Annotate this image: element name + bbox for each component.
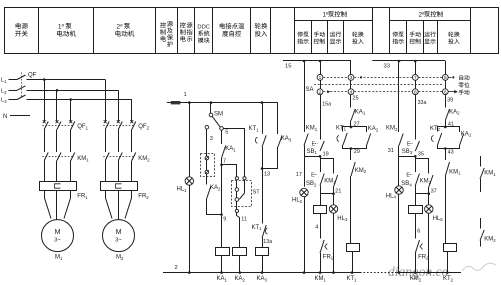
svg-text:21: 21 [335, 188, 341, 194]
svg-text:KA3: KA3 [281, 136, 292, 142]
svg-text:SM: SM [214, 112, 223, 118]
svg-text:35: 35 [418, 151, 424, 157]
svg-text:L3: L3 [1, 98, 7, 104]
svg-text:6: 6 [417, 228, 420, 234]
svg-text:KM2: KM2 [484, 237, 496, 243]
svg-text:7: 7 [223, 158, 226, 164]
svg-text:E: E [406, 173, 410, 179]
svg-text:3~: 3~ [54, 238, 61, 244]
svg-text:43: 43 [448, 149, 454, 155]
svg-text:7: 7 [414, 75, 417, 81]
svg-text:KM1: KM1 [484, 171, 496, 177]
svg-text:39: 39 [447, 98, 453, 104]
svg-text:KM2: KM2 [355, 168, 367, 174]
svg-text:15: 15 [285, 64, 291, 70]
svg-text:6: 6 [444, 89, 447, 95]
svg-text:3: 3 [210, 136, 213, 142]
svg-text:KT1: KT1 [249, 126, 260, 132]
svg-text:KT1: KT1 [252, 225, 263, 231]
svg-text:SB3: SB3 [402, 149, 413, 155]
svg-text:L2: L2 [1, 89, 7, 95]
svg-text:E: E [312, 142, 316, 148]
svg-text:SB1: SB1 [307, 149, 318, 155]
svg-text:KM2: KM2 [420, 179, 432, 185]
svg-text:SA: SA [306, 87, 314, 93]
svg-text:E: E [311, 173, 315, 179]
svg-text:DDC: DDC [197, 25, 210, 31]
svg-text:KM1: KM1 [449, 169, 461, 175]
svg-text:5: 5 [225, 130, 228, 136]
svg-text:8: 8 [414, 89, 417, 95]
svg-text:KA2: KA2 [235, 276, 246, 282]
svg-text:M2: M2 [116, 255, 124, 261]
svg-text:ST: ST [253, 190, 261, 196]
svg-text:M1: M1 [55, 255, 63, 261]
svg-text:KA1: KA1 [217, 276, 228, 282]
svg-text:KA2: KA2 [449, 109, 460, 115]
svg-text:FR2: FR2 [418, 254, 429, 260]
svg-text:HL2: HL2 [292, 198, 303, 204]
svg-text:HL1: HL1 [177, 187, 188, 193]
svg-text:M: M [55, 229, 61, 236]
svg-text:3: 3 [350, 75, 353, 81]
svg-text:9: 9 [223, 216, 226, 222]
svg-text:4: 4 [315, 225, 318, 231]
svg-text:31: 31 [388, 148, 394, 154]
svg-text:N: N [3, 114, 7, 120]
svg-text:KT1: KT1 [336, 125, 347, 131]
svg-text:13: 13 [264, 171, 270, 177]
svg-text:17: 17 [296, 172, 302, 178]
svg-text:L1: L1 [1, 78, 7, 84]
svg-text:KM2: KM2 [386, 126, 398, 132]
svg-text:FR1: FR1 [323, 254, 334, 260]
svg-text:M: M [116, 229, 122, 236]
svg-text:KA1: KA1 [225, 146, 236, 152]
svg-text:KM2: KM2 [138, 156, 150, 162]
svg-text:QF1: QF1 [77, 124, 88, 130]
svg-text:KM1: KM1 [77, 156, 89, 162]
svg-text:SB2: SB2 [306, 181, 317, 187]
svg-text:HL3: HL3 [337, 216, 348, 222]
svg-text:33: 33 [384, 64, 390, 70]
svg-text:1: 1 [184, 92, 187, 98]
svg-text:FR2: FR2 [138, 194, 149, 200]
svg-text:11: 11 [241, 217, 247, 223]
svg-text:KM1: KM1 [315, 276, 327, 282]
svg-text:29: 29 [354, 149, 360, 155]
svg-text:33a: 33a [418, 100, 427, 106]
svg-text:5: 5 [444, 75, 447, 81]
svg-text:E: E [407, 142, 411, 148]
svg-text:KA1: KA1 [461, 131, 472, 137]
svg-text:HL4: HL4 [386, 193, 397, 199]
svg-text:QF2: QF2 [138, 124, 149, 130]
svg-text:3~: 3~ [115, 238, 122, 244]
svg-text:1: 1 [319, 75, 322, 81]
svg-text:KM1: KM1 [324, 179, 336, 185]
svg-text:37: 37 [431, 188, 437, 194]
svg-text:KT1: KT1 [347, 276, 358, 282]
svg-text:FR1: FR1 [77, 194, 88, 200]
svg-text:KA2: KA2 [210, 185, 221, 191]
svg-text:KM1: KM1 [306, 126, 318, 132]
svg-text:KA2: KA2 [368, 126, 379, 132]
svg-text:SB4: SB4 [401, 181, 412, 187]
svg-text:HL5: HL5 [433, 216, 444, 222]
svg-text:25: 25 [352, 95, 358, 101]
svg-text:KA3: KA3 [257, 276, 268, 282]
svg-text:15a: 15a [322, 101, 331, 107]
svg-text:19: 19 [323, 151, 329, 157]
svg-text:QF: QF [28, 73, 37, 79]
svg-text:diangon.co: diangon.co [388, 264, 449, 279]
svg-text:KT2: KT2 [430, 126, 441, 132]
svg-text:2: 2 [319, 89, 322, 95]
svg-text:KA1: KA1 [355, 109, 366, 115]
svg-text:2: 2 [175, 265, 178, 271]
svg-text:13a: 13a [263, 239, 272, 245]
